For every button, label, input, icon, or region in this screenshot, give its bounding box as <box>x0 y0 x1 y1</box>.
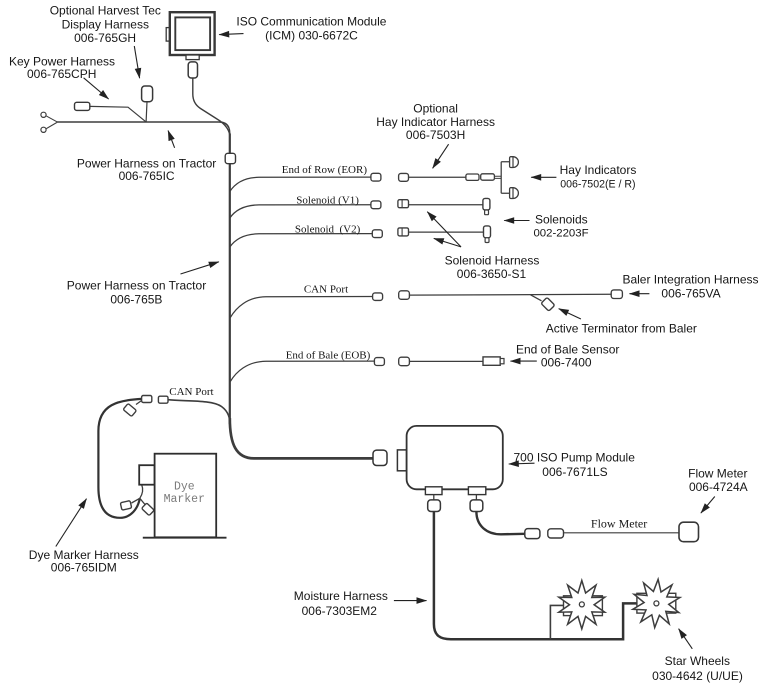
svg-text:Marker: Marker <box>164 493 205 506</box>
svg-text:Solenoid (V1): Solenoid (V1) <box>296 195 359 207</box>
svg-text:Power Harness on Tractor: Power Harness on Tractor <box>67 278 206 292</box>
svg-text:Flow Meter: Flow Meter <box>591 516 647 530</box>
svg-text:End of Bale (EOB): End of Bale (EOB) <box>286 350 371 362</box>
svg-text:006-7503H: 006-7503H <box>406 128 465 142</box>
svg-text:ISO Communication Module: ISO Communication Module <box>236 15 386 29</box>
svg-text:006-765CPH: 006-765CPH <box>27 67 96 81</box>
svg-text:006-7400: 006-7400 <box>541 356 592 370</box>
svg-text:006-765VA: 006-765VA <box>661 287 720 301</box>
svg-text:Solenoid (V2): Solenoid (V2) <box>295 224 361 236</box>
svg-text:CAN Port: CAN Port <box>169 386 213 398</box>
svg-text:006-7502(E / R): 006-7502(E / R) <box>560 179 635 191</box>
svg-text:End of Bale Sensor: End of Bale Sensor <box>516 343 619 357</box>
svg-text:700 ISO Pump Module: 700 ISO Pump Module <box>513 450 635 464</box>
svg-text:Flow Meter: Flow Meter <box>688 467 747 481</box>
svg-text:030-4642 (U/UE): 030-4642 (U/UE) <box>652 669 743 683</box>
svg-text:Hay Indicators: Hay Indicators <box>560 163 637 177</box>
svg-text:Moisture Harness: Moisture Harness <box>294 589 388 603</box>
svg-text:Star Wheels: Star Wheels <box>665 654 730 668</box>
svg-text:Active Terminator from Baler: Active Terminator from Baler <box>546 322 697 336</box>
svg-text:006-765B: 006-765B <box>110 293 162 307</box>
svg-text:006-765GH: 006-765GH <box>74 31 136 45</box>
svg-text:006-7303EM2: 006-7303EM2 <box>302 604 378 618</box>
svg-text:006-4724A: 006-4724A <box>689 480 748 494</box>
svg-text:Display Harness: Display Harness <box>62 17 149 31</box>
svg-text:Baler Integration Harness: Baler Integration Harness <box>622 273 758 287</box>
svg-text:End of Row (EOR): End of Row (EOR) <box>282 164 368 176</box>
svg-text:006-765IC: 006-765IC <box>119 169 175 183</box>
svg-text:006-765IDM: 006-765IDM <box>51 560 117 574</box>
svg-text:Dye: Dye <box>174 480 195 493</box>
svg-text:002-2203F: 002-2203F <box>533 228 588 240</box>
svg-text:Hay Indicator Harness: Hay Indicator Harness <box>376 115 495 129</box>
svg-text:CAN Port: CAN Port <box>304 283 348 295</box>
svg-text:006-3650-S1: 006-3650-S1 <box>457 267 527 281</box>
svg-text:Optional Harvest Tec: Optional Harvest Tec <box>50 4 161 18</box>
svg-text:Solenoid Harness: Solenoid Harness <box>445 253 540 267</box>
svg-text:Solenoids: Solenoids <box>535 212 588 226</box>
svg-text:Optional: Optional <box>413 101 458 115</box>
svg-text:006-7671LS: 006-7671LS <box>542 465 607 479</box>
svg-text:(ICM) 030-6672C: (ICM) 030-6672C <box>265 29 358 43</box>
